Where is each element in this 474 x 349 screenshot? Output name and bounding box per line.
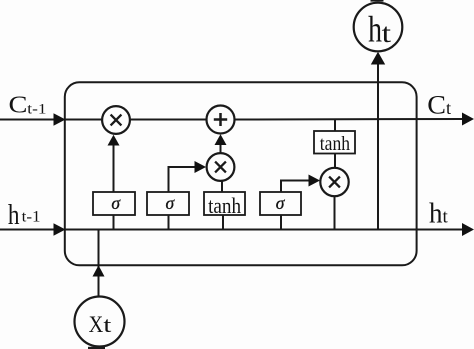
wire sigma-i down to h wire: [168, 215, 170, 230]
wire C input: [0, 113, 66, 126]
cell body box: [65, 82, 417, 265]
wire sigma-o down to h wire: [280, 215, 282, 230]
svg-text:σ: σ: [276, 193, 286, 213]
gate box sigma forget: [93, 192, 135, 215]
wire tanh-c up to multiply2: [221, 181, 223, 192]
wire h input: [0, 223, 66, 236]
svg-text:σ: σ: [111, 193, 121, 213]
gate box sigma output: [260, 192, 301, 215]
svg-text:tanh: tanh: [208, 193, 241, 218]
wire multiply3 down to h wire: [334, 196, 336, 230]
wire tanh-c down to h wire: [222, 215, 224, 230]
label ht right: [429, 197, 449, 229]
wire C branch down to tanh upper: [334, 120, 336, 132]
wire C right and output: [235, 113, 474, 126]
svg-text:t: t: [103, 312, 111, 337]
svg-text:σ: σ: [166, 193, 176, 213]
svg-text:X: X: [89, 312, 104, 337]
svg-text:h: h: [8, 198, 20, 230]
svg-text:t: t: [446, 98, 451, 118]
svg-text:t: t: [382, 18, 392, 48]
add node: [207, 106, 235, 134]
svg-text:C: C: [9, 90, 28, 118]
wire h internal and output: [65, 223, 474, 236]
node ht output circle: [354, 3, 403, 52]
wire C inside left: [65, 119, 103, 121]
label Ct-1: [9, 90, 47, 118]
wire C mid: [130, 119, 207, 121]
label ht-1: [8, 198, 41, 230]
wire tanh upper down to multiply3: [334, 154, 336, 169]
node Xt input circle: [75, 297, 125, 347]
multiply node forget: [102, 106, 130, 134]
svg-text:C: C: [427, 90, 446, 119]
svg-text:t: t: [443, 206, 449, 227]
wire sigma-f down to h wire: [113, 215, 115, 230]
multiply node output: [320, 168, 348, 196]
svg-text:h: h: [368, 10, 382, 51]
svg-text:h: h: [429, 197, 443, 229]
gate box tanh candidate: [204, 192, 245, 218]
svg-text:t-1: t-1: [22, 209, 41, 226]
gate box sigma input: [147, 192, 189, 215]
wire ht output vertical: [371, 52, 385, 230]
wire stub above ht circle (cropped): [371, 0, 384, 2]
multiply node input-candidate: [207, 153, 235, 181]
wire sigma-f up to multiply: [108, 135, 120, 192]
wire multiply2 up to add: [215, 134, 227, 153]
gate box tanh output: [314, 131, 355, 155]
wire Xt input vertical: [93, 230, 105, 298]
wire sigma-o elbow to multiply3: [281, 175, 320, 193]
svg-text:t-1: t-1: [27, 101, 46, 117]
wire stub below Xt circle (cropped): [88, 347, 105, 349]
wire sigma-i elbow to multiply2: [169, 161, 207, 192]
svg-text:tanh: tanh: [320, 133, 350, 155]
label Ct: [427, 90, 451, 119]
